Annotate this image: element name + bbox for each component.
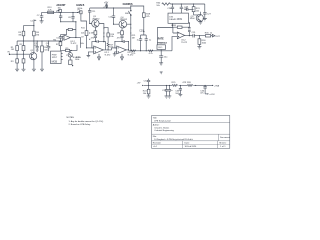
resistor R30	[156, 2, 170, 6]
svg-text:1 of 1: 1 of 1	[220, 146, 226, 148]
svg-text:22k: 22k	[81, 32, 85, 34]
connector J1 input	[8, 52, 11, 56]
svg-text:Q1: Q1	[30, 50, 34, 52]
svg-text:R3: R3	[11, 61, 15, 63]
capacitor C11	[88, 8, 96, 24]
svg-text:1M: 1M	[91, 32, 94, 34]
svg-text:NOTES:: NOTES:	[67, 117, 75, 119]
pot LEVEL	[68, 50, 82, 61]
op-amp U1	[62, 35, 77, 45]
capacitor C7	[33, 12, 43, 21]
resistor R4	[41, 41, 49, 69]
capacitor C34	[168, 85, 174, 95]
switch box FSW1	[51, 51, 63, 64]
ground	[15, 69, 19, 71]
wire input to Q1 base	[11, 53, 30, 55]
ground B input	[113, 54, 117, 56]
ground A under	[98, 54, 101, 60]
svg-text:R26: R26	[187, 82, 192, 84]
wire stage link	[108, 48, 117, 50]
node LDR1	[89, 23, 90, 24]
svg-text:47R: 47R	[182, 82, 186, 84]
capacitor C31 series	[192, 32, 197, 37]
capacitor C36	[200, 85, 207, 94]
net flag +9V input	[137, 82, 144, 86]
ic U3 lfo	[157, 45, 165, 50]
capacitor C22	[145, 39, 152, 51]
node gain chain	[86, 47, 87, 48]
node input junction	[17, 54, 18, 55]
node out B	[128, 49, 129, 50]
ground small lfo	[160, 72, 163, 74]
svg-text:OUT: OUT	[215, 36, 220, 38]
capacitor C8	[68, 12, 75, 21]
svg-text:D:\Dropbox\...\LPB-Script-to-t: D:\Dropbox\...\LPB-Script-to-tool R0.4.d…	[154, 138, 194, 141]
svg-text:100k: 100k	[202, 42, 207, 44]
capacitor C5	[56, 35, 66, 41]
label RATE	[157, 38, 167, 45]
node rail end	[78, 12, 79, 13]
resistor R18	[117, 28, 124, 36]
title row	[152, 121, 230, 123]
resistor R14	[91, 27, 97, 36]
svg-text:DELAY: DELAY	[169, 18, 176, 21]
node interstage	[108, 49, 109, 50]
node supply	[148, 85, 149, 86]
capacitor C33	[162, 85, 168, 95]
wire 9V rail	[90, 7, 131, 9]
svg-text:R11: R11	[81, 28, 86, 30]
wire adjust bottom	[61, 21, 76, 23]
resistor R26 zigzag	[182, 82, 192, 86]
op-amp U5	[177, 32, 188, 44]
resistor R33 feedback	[172, 25, 189, 33]
svg-text:100k: 100k	[75, 59, 80, 61]
svg-text:1. Any for double amount for Q: 1. Any for double amount for Q1 4.5Q.	[69, 120, 105, 123]
resistor R28	[142, 13, 150, 18]
author rows	[152, 133, 230, 135]
resistor R6 feedback	[53, 22, 76, 42]
capacitor C21	[137, 39, 143, 51]
capacitor C12	[91, 36, 97, 41]
svg-text:1u: 1u	[149, 39, 152, 41]
svg-text:Chuck D. Bones: Chuck D. Bones	[154, 127, 169, 129]
svg-text:R25: R25	[172, 82, 177, 84]
svg-text:C27: C27	[207, 13, 212, 15]
capacitor C27	[203, 4, 211, 18]
svg-text:R33: R33	[172, 25, 177, 27]
svg-text:2. Based on LPB-Delay.: 2. Based on LPB-Delay.	[69, 124, 92, 126]
node LDR2	[113, 24, 114, 25]
wire LDR1 row	[90, 24, 104, 42]
capacitor C4	[46, 41, 51, 51]
wire adjust rail	[42, 11, 78, 13]
svg-text:10u: 10u	[164, 57, 168, 59]
ground C7	[40, 21, 44, 23]
lamp LDR1	[92, 16, 101, 27]
ground Q1 emitter	[32, 69, 36, 71]
svg-text:Date:: Date:	[185, 142, 190, 145]
svg-text:1M: 1M	[132, 38, 135, 40]
svg-text:+9VA: +9VA	[214, 84, 220, 87]
svg-text:10k: 10k	[196, 10, 200, 12]
capacitor C24	[167, 4, 174, 13]
wire supply bus	[144, 84, 211, 86]
svg-text:10k: 10k	[80, 43, 84, 45]
wire rail top left	[17, 40, 62, 42]
node rail dots	[23, 40, 24, 41]
ground C33 C34	[165, 96, 172, 98]
svg-text:3PDT: 3PDT	[52, 57, 58, 59]
svg-text:Document:: Document:	[220, 136, 230, 139]
svg-text:10k: 10k	[44, 50, 48, 52]
transistor Q1	[30, 41, 37, 69]
connector J2 output	[212, 34, 220, 37]
svg-text:+9V: +9V	[137, 82, 141, 84]
svg-text:Title:: Title:	[153, 117, 158, 120]
connector jack box	[66, 55, 73, 66]
wire u4 to lfo	[158, 23, 173, 45]
resistor R23 zigzag	[148, 50, 153, 55]
wire u5 plus in	[172, 37, 177, 51]
wire clock rail	[171, 3, 205, 5]
file row	[152, 140, 230, 142]
svg-text:10k: 10k	[156, 5, 160, 7]
pot ADJUST P1	[56, 4, 66, 12]
node clock	[172, 3, 173, 4]
node 9V	[106, 7, 107, 8]
svg-text:1M: 1M	[36, 34, 39, 36]
ic U4	[168, 13, 188, 23]
svg-text:C9: C9	[81, 37, 85, 39]
svg-text:C7: C7	[37, 15, 41, 17]
node fb B	[121, 41, 122, 42]
title block frame	[152, 116, 230, 149]
svg-text:File:: File:	[153, 136, 157, 138]
svg-text:TL072: TL072	[70, 43, 77, 45]
wire output row	[185, 35, 206, 37]
svg-text:4.7k: 4.7k	[131, 53, 136, 55]
ground R2	[22, 69, 26, 71]
ground C23	[159, 63, 163, 65]
resistor R17 zigzag	[107, 43, 114, 48]
wire +in gnd A	[88, 52, 93, 55]
node U1 out	[75, 21, 76, 22]
wire +in gnd B	[115, 52, 117, 54]
revision row	[183, 141, 218, 149]
resistor R13	[48, 7, 54, 13]
capacitor C3	[34, 41, 39, 50]
svg-text:16 Feb 2020: 16 Feb 2020	[185, 146, 198, 148]
switch SW1	[125, 6, 131, 24]
svg-text:LFO: LFO	[158, 47, 162, 49]
svg-text:C11: C11	[92, 11, 97, 13]
label GAIN B	[76, 4, 84, 12]
resistor R5	[18, 31, 24, 36]
svg-text:C31: C31	[192, 32, 197, 34]
svg-text:C8: C8	[68, 17, 72, 19]
node R9	[71, 50, 72, 51]
lamp LDR2	[119, 17, 128, 28]
resistor R34	[198, 36, 207, 47]
node output row	[189, 35, 190, 36]
capacitor C25	[180, 4, 189, 13]
svg-text:LPB Script-to-tool: LPB Script-to-tool	[154, 119, 171, 122]
svg-text:GAIN B: GAIN B	[76, 4, 84, 7]
resistor R31	[192, 4, 200, 12]
svg-text:4.7k: 4.7k	[149, 53, 154, 55]
op-amp U2.1	[94, 46, 111, 56]
node caps top	[143, 31, 144, 32]
capacitor C35	[175, 85, 182, 94]
resistor R24	[143, 85, 150, 95]
ground C27	[203, 19, 207, 21]
svg-text:CHORUS: CHORUS	[123, 4, 133, 6]
capacitor C15	[108, 8, 115, 24]
node fb A	[95, 41, 96, 42]
svg-text:Celestial Engineering: Celestial Engineering	[154, 129, 174, 132]
resistor R7	[56, 42, 62, 46]
resistor R2	[20, 41, 25, 69]
resistor R11 chain	[80, 27, 88, 48]
resistor R35	[205, 33, 213, 37]
ground R24	[147, 96, 151, 98]
svg-text:1M: 1M	[117, 32, 120, 34]
svg-text:10k: 10k	[143, 93, 147, 95]
svg-text:MGB: MGB	[52, 61, 58, 64]
pot GAIN B body	[77, 11, 87, 27]
wire gain chain to U2.1	[87, 47, 94, 49]
svg-text:3904: 3904	[190, 18, 195, 20]
svg-text:Author:: Author:	[153, 123, 160, 126]
node corner	[33, 25, 34, 26]
wire U1 out	[76, 38, 81, 48]
wire stage B out	[126, 49, 128, 51]
resistor R16 interstage	[103, 28, 115, 50]
node adjust dots	[60, 12, 61, 13]
wire corner upper	[24, 20, 37, 41]
capacitor C17 feedback	[115, 40, 129, 50]
resistor R9	[61, 45, 77, 52]
svg-text:TL072: TL072	[104, 54, 111, 56]
capacitor C23	[159, 56, 168, 63]
wire lfo bus	[129, 50, 172, 52]
resistor R25 zigzag	[172, 82, 178, 86]
net flag +4.5V	[205, 93, 215, 96]
svg-text:-0.4: -0.4	[153, 146, 157, 148]
svg-text:RATE: RATE	[158, 38, 165, 41]
svg-text:Sheets:: Sheets:	[219, 142, 226, 145]
svg-text:1M: 1M	[11, 49, 14, 51]
svg-text:TL072: TL072	[181, 42, 188, 44]
svg-text:2N5952: 2N5952	[120, 19, 128, 21]
svg-text:1u: 1u	[170, 90, 173, 92]
resistor R6b	[33, 31, 40, 36]
op-amp U2.2	[117, 46, 134, 56]
ground C3	[36, 50, 39, 51]
svg-text:Revision:: Revision:	[153, 143, 162, 145]
svg-text:C26: C26	[184, 6, 189, 8]
capacitor C6	[59, 12, 62, 21]
resistor R1	[11, 41, 19, 69]
power +9V	[103, 1, 109, 8]
svg-text:47k: 47k	[146, 16, 150, 18]
capacitor C26	[184, 6, 193, 10]
wire rail B down	[130, 24, 132, 51]
wire R7 branch	[60, 41, 62, 51]
node base junction	[23, 54, 24, 55]
svg-text:1M: 1M	[18, 34, 21, 36]
resistor R22 zigzag	[131, 50, 136, 55]
net flag +9VA out	[211, 84, 220, 87]
ground C35	[179, 94, 183, 96]
ground R4	[40, 69, 44, 71]
wire chorus to R28	[131, 6, 144, 13]
node chorus	[130, 5, 131, 6]
capacitor C29 feedback	[188, 22, 191, 35]
transistor Q5	[190, 12, 204, 22]
ground B under	[121, 54, 124, 60]
svg-text:2N5952: 2N5952	[92, 19, 100, 21]
capacitor C13 feedback	[92, 40, 106, 50]
ground Q5	[199, 22, 203, 24]
svg-text:10k: 10k	[110, 36, 114, 38]
wire caps pair top	[141, 17, 147, 39]
svg-text:TRIANGLE: TRIANGLE	[157, 42, 167, 45]
svg-text:IN: IN	[8, 52, 11, 54]
node bus	[130, 50, 131, 51]
wire LDR2 row	[114, 23, 131, 25]
svg-text:47u: 47u	[200, 93, 204, 95]
svg-text:+4.5V: +4.5V	[209, 94, 215, 96]
capacitor C32	[144, 79, 151, 86]
wire lfo down	[160, 50, 162, 56]
capacitor C16	[117, 36, 124, 41]
svg-text:2399: 2399	[177, 18, 183, 21]
ground A input	[87, 56, 91, 58]
ground R34	[197, 47, 201, 49]
